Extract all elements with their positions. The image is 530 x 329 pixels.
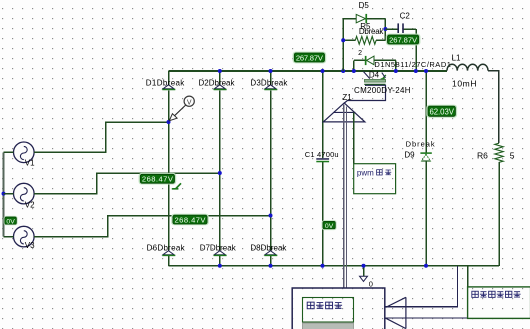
resistor R6 [495, 143, 503, 162]
wire V3 to bridge [34, 216, 270, 237]
node neutral junction at V2 [2, 192, 6, 196]
node V2 phase junction [218, 171, 222, 175]
svg-text:D4: D4 [369, 70, 380, 79]
label bias 267.87V C2 [386, 34, 421, 46]
capacitor C1 [316, 158, 329, 162]
diode D3 [264, 85, 277, 90]
svg-text:R6: R6 [477, 150, 488, 160]
svg-text:267.87V: 267.87V [389, 35, 418, 44]
node rail D4 left [352, 69, 356, 73]
label 0V C1 leg [322, 220, 337, 230]
svg-text:D7Dbreak: D7Dbreak [200, 243, 237, 252]
svg-text:C1 4700u: C1 4700u [305, 150, 339, 159]
svg-text:D1N5811/27C/RAD1: D1N5811/27C/RAD1 [374, 60, 451, 69]
transistor Z1 gate plates CM200DY [344, 72, 385, 104]
wire feedback sense upper [386, 266, 458, 307]
box pwm pulse source [354, 164, 396, 194]
svg-text:V: V [187, 100, 192, 107]
box voltage current feedback [468, 287, 530, 319]
node rail D2 [218, 69, 222, 73]
wire D5/R5 loop [343, 19, 385, 72]
node rail C1 [321, 69, 325, 73]
svg-text:V1: V1 [25, 158, 35, 167]
diode D8 [264, 251, 277, 256]
node C2 tap [383, 27, 387, 31]
node V1 phase junction [167, 120, 171, 124]
transistor Z1 triangle [323, 103, 365, 122]
source V1 [13, 142, 34, 163]
svg-text:D8Dbreak: D8Dbreak [250, 243, 287, 252]
svg-text:5: 5 [510, 150, 515, 160]
diode D1 [162, 85, 175, 90]
diode D2 leg wire [219, 71, 221, 266]
svg-text:D5: D5 [359, 1, 370, 10]
svg-text:D3Dbreak: D3Dbreak [250, 79, 288, 88]
svg-text:268.47V: 268.47V [142, 175, 174, 184]
svg-text:62.03V: 62.03V [429, 107, 454, 116]
node rail D9 [424, 69, 428, 73]
node rail C2 [414, 69, 418, 73]
resistor R5 [355, 36, 376, 44]
ground 0 [360, 266, 368, 282]
diode D9 leg wire [425, 71, 427, 266]
box control circuit outer [292, 288, 385, 329]
source V3 [13, 226, 34, 247]
svg-text:D1Dbreak: D1Dbreak [146, 79, 186, 88]
wire V2 left stub [4, 193, 14, 195]
node rail D3 [269, 69, 273, 73]
probe voltage marker V1 [169, 96, 194, 121]
wire V3 left stub [4, 236, 14, 238]
node rail D5 left leg [341, 69, 345, 73]
label bias 268.47V phase2 [139, 173, 177, 185]
node bus C1 [321, 264, 325, 268]
label bias 267.87V rail [293, 52, 327, 64]
svg-text:Dbreak: Dbreak [359, 27, 385, 36]
label bias 62.03V [426, 105, 457, 118]
svg-text:Dbreak: Dbreak [406, 140, 435, 149]
node bus D7 [218, 264, 222, 268]
diode D9 [420, 152, 431, 161]
node bus D9 [424, 264, 428, 268]
svg-text:L1: L1 [452, 53, 461, 62]
capacitor C2 [385, 23, 416, 71]
diode D4 [354, 56, 396, 71]
label bias 268.47V phase3 [171, 214, 209, 226]
svg-text:CM200DY-24H: CM200DY-24H [354, 86, 411, 95]
svg-text:pwm: pwm [357, 169, 374, 178]
wire Z1 gate to pwm box [353, 112, 355, 163]
svg-text:V3: V3 [25, 241, 35, 250]
wire feedback sense lower [386, 317, 468, 319]
wire feedback box tap [467, 266, 469, 287]
svg-text:10mH: 10mH [452, 78, 477, 88]
wire top dc rail [169, 70, 448, 72]
diode D2 [214, 85, 227, 90]
svg-text:Z1: Z1 [342, 93, 352, 102]
diode D5 [356, 14, 367, 23]
wire neutral vertical bus left [2, 152, 4, 236]
diode D6 [162, 251, 175, 256]
wire R6 to bus [498, 162, 500, 266]
node bus D8 [269, 264, 273, 268]
svg-text:0V: 0V [325, 223, 334, 230]
svg-text:2: 2 [358, 50, 362, 57]
node bus ground [362, 264, 366, 268]
wire V2 to bridge [34, 173, 220, 194]
wire L1 to load [488, 71, 499, 144]
wire V1 left stub [4, 151, 14, 153]
wire Z1 emitter double line [344, 105, 347, 289]
source V2 [13, 183, 34, 204]
box control shaded bottom [303, 323, 354, 329]
capacitor C1 leg wire [322, 71, 324, 266]
probe pencil mark phase2 [172, 183, 181, 189]
svg-text:267.87V: 267.87V [296, 53, 324, 62]
diode D3 leg wire [270, 71, 272, 266]
node R5 left [341, 38, 345, 42]
svg-text:D2Dbreak: D2Dbreak [199, 79, 236, 88]
node V3 phase junction [269, 214, 273, 218]
svg-text:0: 0 [369, 279, 373, 288]
label 0V neutral [4, 216, 18, 226]
box control circuit inner [303, 298, 354, 323]
svg-text:C2: C2 [400, 12, 411, 21]
probe pencil mark D4 [381, 75, 386, 79]
amplifier arrows [386, 297, 406, 328]
diode D7 [214, 251, 227, 256]
inductor L1 [447, 64, 488, 70]
svg-text:D6Dbreak: D6Dbreak [147, 243, 186, 252]
wire V1 to bridge [34, 122, 168, 152]
diode D1 leg wire [168, 71, 170, 266]
svg-text:V2: V2 [25, 200, 35, 209]
node rail D4 right [394, 69, 398, 73]
svg-text:268.47V: 268.47V [175, 215, 207, 224]
svg-text:0V: 0V [6, 219, 15, 226]
wire bottom dc bus [169, 265, 499, 267]
svg-text:D9: D9 [404, 151, 415, 160]
